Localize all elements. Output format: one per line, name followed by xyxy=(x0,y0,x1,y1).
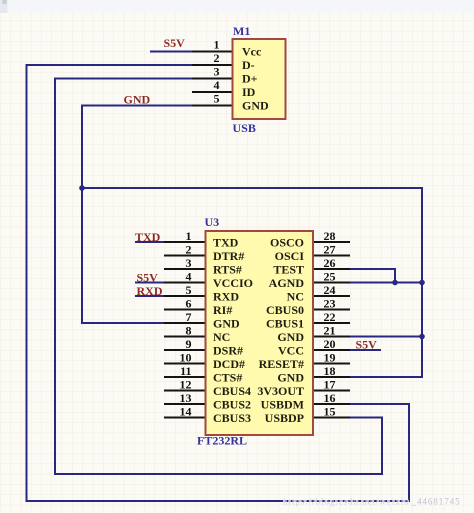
svg-text:20: 20 xyxy=(324,337,336,351)
svg-text:RI#: RI# xyxy=(213,303,232,317)
svg-text:ID: ID xyxy=(242,85,256,99)
svg-text:TXD: TXD xyxy=(135,230,161,244)
svg-text:S5V: S5V xyxy=(164,36,186,50)
svg-text:CBUS4: CBUS4 xyxy=(213,384,251,398)
svg-text:OSCO: OSCO xyxy=(270,236,304,250)
svg-text:U3: U3 xyxy=(205,215,220,229)
svg-text:25: 25 xyxy=(324,270,336,284)
svg-text:NC: NC xyxy=(287,290,304,304)
svg-text:DCD#: DCD# xyxy=(213,357,245,371)
svg-text:3: 3 xyxy=(186,256,192,270)
svg-text:GND: GND xyxy=(242,98,269,112)
svg-text:24: 24 xyxy=(324,283,336,297)
svg-text:17: 17 xyxy=(324,378,336,392)
svg-text:14: 14 xyxy=(180,405,192,419)
svg-text:TEST: TEST xyxy=(273,263,304,277)
svg-text:12: 12 xyxy=(180,378,192,392)
svg-text:3V3OUT: 3V3OUT xyxy=(257,384,304,398)
svg-text:28: 28 xyxy=(324,229,336,243)
svg-text:USBDM: USBDM xyxy=(261,398,304,412)
svg-text:GND: GND xyxy=(277,330,304,344)
svg-text:10: 10 xyxy=(180,351,192,365)
svg-text:5: 5 xyxy=(186,283,192,297)
svg-text:CBUS2: CBUS2 xyxy=(213,398,251,412)
svg-text:FT232RL: FT232RL xyxy=(197,434,247,448)
svg-text:GND: GND xyxy=(213,317,240,331)
svg-text:D+: D+ xyxy=(242,71,258,85)
svg-text:RXD: RXD xyxy=(137,284,163,298)
svg-text:9: 9 xyxy=(186,337,192,351)
svg-text:8: 8 xyxy=(186,324,192,338)
svg-text:27: 27 xyxy=(324,243,336,257)
svg-text:CBUS3: CBUS3 xyxy=(213,411,251,425)
svg-text:16: 16 xyxy=(324,391,336,405)
svg-text:CBUS1: CBUS1 xyxy=(266,317,304,331)
svg-text:OSCI: OSCI xyxy=(275,249,305,263)
svg-text:CTS#: CTS# xyxy=(213,371,242,385)
svg-text:_44681745: _44681745 xyxy=(411,497,461,507)
svg-text:VCCIO: VCCIO xyxy=(213,276,253,290)
svg-text:4: 4 xyxy=(214,78,220,92)
svg-text:7: 7 xyxy=(186,310,192,324)
svg-text:GND: GND xyxy=(277,371,304,385)
svg-text:1: 1 xyxy=(186,229,192,243)
svg-text:22: 22 xyxy=(324,310,336,324)
svg-text:CBUS0: CBUS0 xyxy=(266,303,304,317)
svg-text:19: 19 xyxy=(324,351,336,365)
svg-text:5: 5 xyxy=(214,92,220,106)
svg-text:S5V: S5V xyxy=(137,271,159,285)
svg-text:2: 2 xyxy=(186,243,192,257)
svg-text:S5V: S5V xyxy=(356,338,378,352)
svg-text:NC: NC xyxy=(213,330,230,344)
svg-text:18: 18 xyxy=(324,364,336,378)
svg-text:21: 21 xyxy=(324,324,336,338)
svg-text:23: 23 xyxy=(324,297,336,311)
svg-text:Vcc: Vcc xyxy=(242,44,262,58)
svg-text:GND: GND xyxy=(124,93,151,107)
svg-text:1: 1 xyxy=(214,38,220,52)
svg-text:RTS#: RTS# xyxy=(213,263,242,277)
svg-text:D-: D- xyxy=(242,58,255,72)
svg-text:DTR#: DTR# xyxy=(213,249,244,263)
svg-text:2: 2 xyxy=(214,51,220,65)
svg-text:6: 6 xyxy=(186,297,192,311)
svg-text:VCC: VCC xyxy=(278,344,304,358)
svg-text:13: 13 xyxy=(180,391,192,405)
svg-text:15: 15 xyxy=(324,405,336,419)
svg-text:DSR#: DSR# xyxy=(213,344,243,358)
svg-text:AGND: AGND xyxy=(269,276,305,290)
svg-text:RXD: RXD xyxy=(213,290,239,304)
svg-text:TXD: TXD xyxy=(213,236,239,250)
svg-text:RESET#: RESET# xyxy=(259,357,304,371)
svg-text:USB: USB xyxy=(233,121,256,135)
svg-text:M1: M1 xyxy=(233,24,250,38)
svg-text:USBDP: USBDP xyxy=(265,411,304,425)
svg-text:11: 11 xyxy=(180,364,191,378)
svg-text:3: 3 xyxy=(214,65,220,79)
svg-text:4: 4 xyxy=(186,270,192,284)
svg-text:https://blog.csdn.net/weixin: https://blog.csdn.net/weixin xyxy=(283,497,410,507)
svg-text:26: 26 xyxy=(324,256,336,270)
